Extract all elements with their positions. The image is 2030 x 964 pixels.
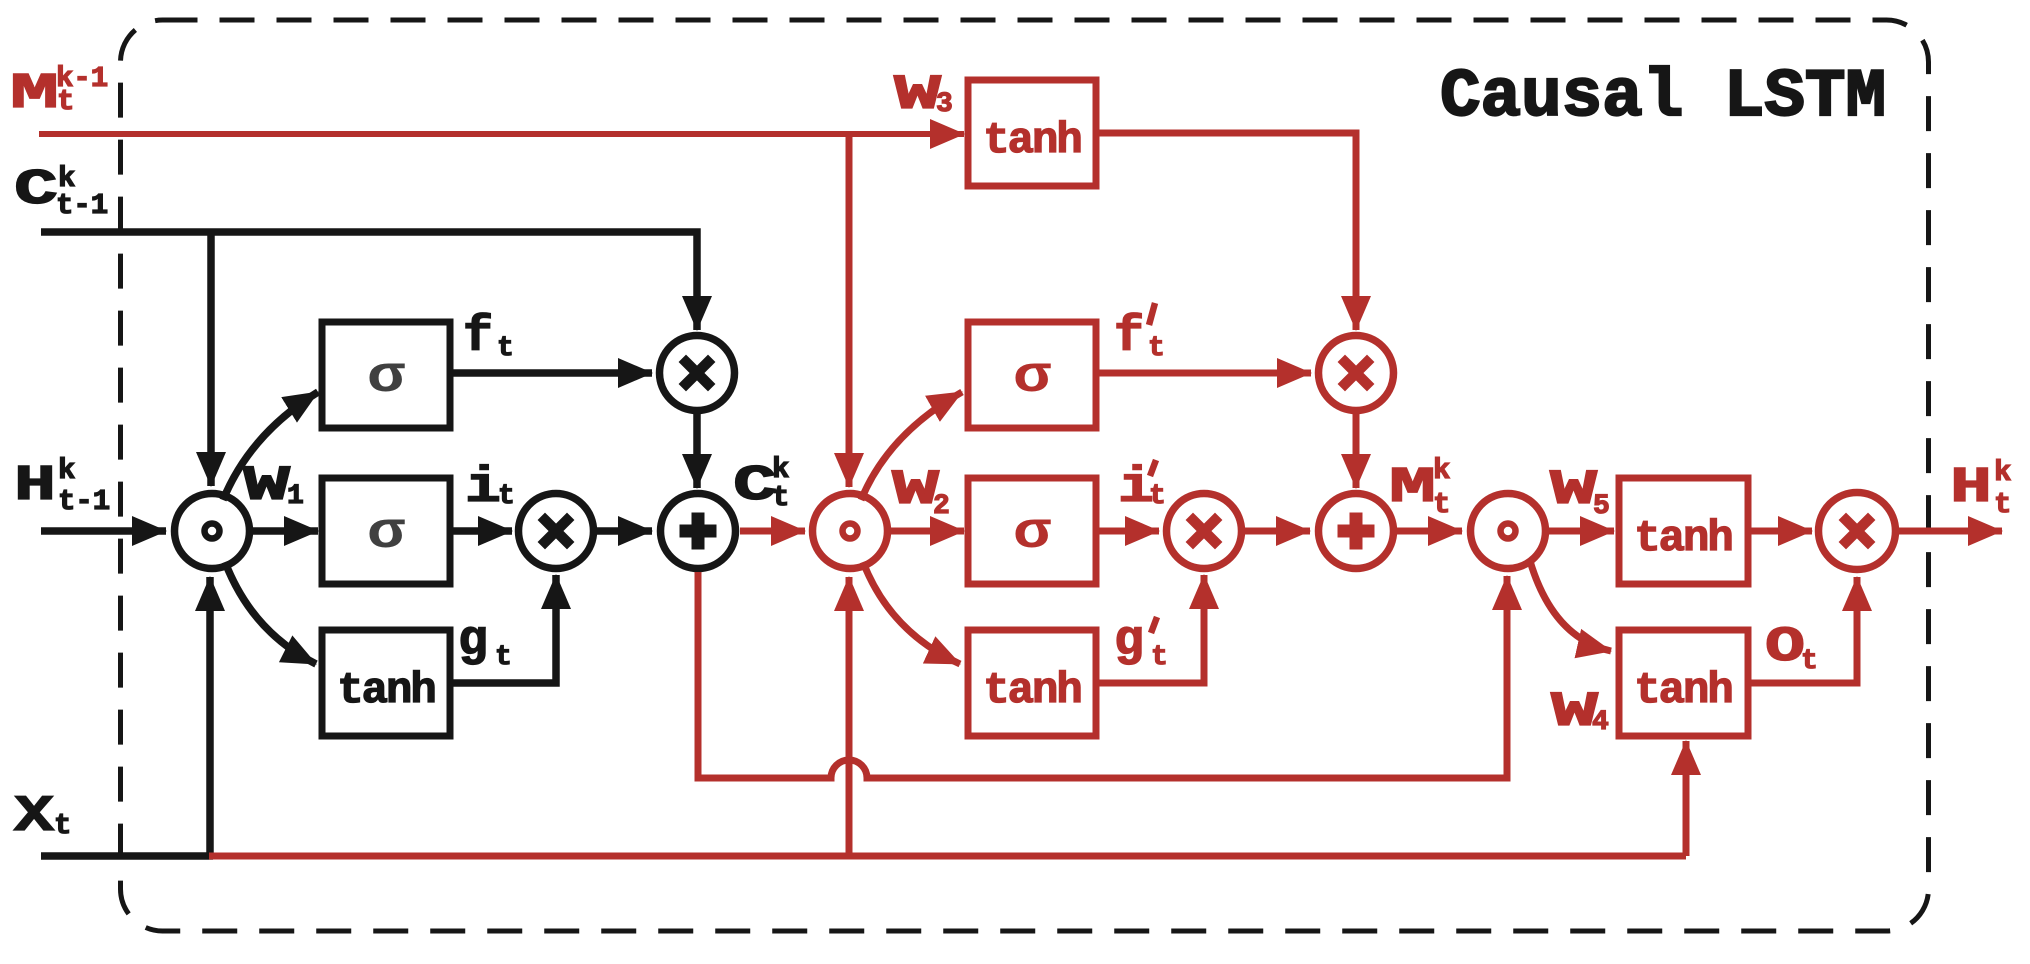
svg-text:H: H <box>1950 460 1992 517</box>
svg-text:t: t <box>1433 488 1450 521</box>
svg-text:t: t <box>54 809 71 842</box>
svg-text:O: O <box>1765 619 1805 675</box>
svg-text:t: t <box>57 85 74 118</box>
svg-text:t: t <box>1151 642 1168 673</box>
svg-text:f: f <box>1114 309 1144 366</box>
svg-text:t: t <box>1994 488 2011 521</box>
svg-text:k: k <box>58 454 75 487</box>
svg-text:C: C <box>14 162 58 219</box>
svg-text:tanh: tanh <box>1634 666 1732 716</box>
svg-text:t-1: t-1 <box>58 485 110 518</box>
svg-text:tanh: tanh <box>1634 514 1732 564</box>
svg-text:2: 2 <box>933 491 950 522</box>
svg-text:t: t <box>1148 333 1165 364</box>
svg-text:t: t <box>1801 646 1818 677</box>
svg-text:1: 1 <box>287 481 304 512</box>
svg-text:M: M <box>10 66 59 123</box>
svg-text:H: H <box>14 458 56 515</box>
svg-text:5: 5 <box>1593 491 1610 522</box>
svg-text:W: W <box>894 67 942 123</box>
svg-text:3: 3 <box>936 89 953 120</box>
svg-text:σ: σ <box>367 504 405 563</box>
svg-text:tanh: tanh <box>983 666 1081 716</box>
svg-text:M: M <box>1389 460 1436 517</box>
svg-text:tanh: tanh <box>337 666 435 716</box>
svg-text:t: t <box>497 333 514 364</box>
svg-text:σ: σ <box>1013 348 1051 407</box>
svg-text:t: t <box>772 481 789 514</box>
svg-text:t: t <box>495 642 512 673</box>
svg-text:Causal LSTM: Causal LSTM <box>1440 59 1886 136</box>
svg-text:W: W <box>243 458 291 514</box>
svg-text:X: X <box>14 789 55 846</box>
svg-text:k: k <box>1994 456 2011 489</box>
svg-text:C: C <box>733 458 777 515</box>
svg-text:g: g <box>1114 613 1144 670</box>
svg-text:i: i <box>465 460 501 517</box>
svg-text:σ: σ <box>1013 504 1051 563</box>
svg-text:f: f <box>463 309 493 366</box>
svg-text:k: k <box>1433 454 1450 487</box>
svg-text:W: W <box>1550 462 1598 518</box>
svg-text:t-1: t-1 <box>56 189 108 222</box>
svg-text:t: t <box>498 481 515 512</box>
svg-text:g: g <box>458 613 488 670</box>
svg-text:tanh: tanh <box>983 116 1081 166</box>
svg-text:4: 4 <box>1592 707 1609 738</box>
svg-text:t: t <box>1149 481 1166 512</box>
svg-text:σ: σ <box>367 348 405 407</box>
